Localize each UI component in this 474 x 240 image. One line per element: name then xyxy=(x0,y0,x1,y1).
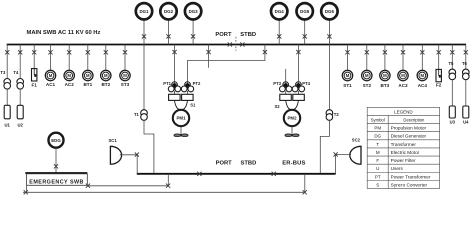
wire PT2 cross feed from STBD xyxy=(188,45,265,82)
svg-text:PT4: PT4 xyxy=(302,81,310,86)
wire SC1 to ER-bus xyxy=(120,155,137,174)
circuit breaker link B emergency end xyxy=(24,190,28,194)
svg-text:PT1: PT1 xyxy=(163,81,171,86)
diesel generator DG5 xyxy=(297,3,313,19)
wire ST1 drop xyxy=(347,45,349,71)
wire F2 drop xyxy=(438,45,440,70)
svg-text:PM1: PM1 xyxy=(176,116,186,121)
electric motor ST2 xyxy=(362,70,372,80)
svg-text:PORT: PORT xyxy=(216,160,233,166)
circuit breaker T5 feeder xyxy=(450,50,454,54)
circuit breaker F2 feeder xyxy=(437,50,441,54)
circuit breaker T4 feeder xyxy=(18,50,22,54)
circuit breaker DG3 xyxy=(191,34,195,38)
circuit breaker DG4 xyxy=(277,34,281,38)
svg-text:Diesel Generator: Diesel Generator xyxy=(391,134,427,139)
wire PT3 to S2a xyxy=(285,91,287,94)
electric motor ST3 xyxy=(120,70,130,80)
svg-text:PT3: PT3 xyxy=(273,81,281,86)
diesel generator DG6 xyxy=(321,3,337,19)
circuit breaker AC1 feeder xyxy=(48,50,52,54)
wire T4 drop xyxy=(19,45,21,79)
svg-text:AC3: AC3 xyxy=(398,83,408,88)
wire S2 to PM2 xyxy=(286,100,299,109)
circuit breaker ER bus tie stbd xyxy=(272,172,276,176)
wire emergency swb left drop xyxy=(26,185,28,192)
wire T1 upper xyxy=(143,45,145,111)
transformer T6 xyxy=(463,69,470,80)
legend table xyxy=(367,107,439,188)
svg-text:Description: Description xyxy=(403,118,425,123)
svg-text:DG: DG xyxy=(374,134,381,139)
transformer T3 xyxy=(4,79,11,90)
transformer T2 xyxy=(326,110,333,121)
circuit breaker ST3 feeder xyxy=(123,50,127,54)
svg-text:DG5: DG5 xyxy=(300,9,310,14)
wire PT1 to S1a xyxy=(174,91,176,94)
power transformer PT1 xyxy=(168,82,180,92)
svg-text:Transformer: Transformer xyxy=(391,142,417,147)
svg-text:Syncro Converter: Syncro Converter xyxy=(391,182,428,187)
wire AC2 drop xyxy=(68,45,70,71)
node port/stbd divider (dashed) xyxy=(235,37,237,51)
diesel generator DG1 xyxy=(136,3,152,19)
transformer T1 xyxy=(141,110,148,121)
circuit breaker AC4 feeder xyxy=(420,50,424,54)
svg-text:AC4: AC4 xyxy=(418,83,428,88)
circuit breaker BT3 feeder xyxy=(383,50,387,54)
emergency switchboard box xyxy=(27,174,88,186)
svg-text:SC1: SC1 xyxy=(109,138,118,143)
circuit breaker T6 feeder xyxy=(464,50,468,54)
circuit breaker DG5 xyxy=(303,34,307,38)
circuit breaker PT2 feeder xyxy=(263,50,267,54)
svg-text:Power Transformer: Power Transformer xyxy=(391,174,431,179)
power filter F1 xyxy=(32,69,37,81)
svg-text:S2: S2 xyxy=(275,104,281,109)
svg-text:BT2: BT2 xyxy=(101,82,110,87)
svg-text:F2: F2 xyxy=(436,82,442,87)
diesel generator DG4 xyxy=(271,3,287,19)
svg-text:ST2: ST2 xyxy=(363,83,372,88)
syncro converter S1 (box b) xyxy=(182,94,194,100)
syncro converter S1 (box a) xyxy=(169,94,181,100)
wire F1 drop xyxy=(33,45,35,69)
propeller 1 xyxy=(174,134,188,137)
svg-text:T6: T6 xyxy=(462,61,468,66)
svg-text:T3: T3 xyxy=(0,70,6,75)
propeller 2 xyxy=(285,134,299,137)
svg-text:T4: T4 xyxy=(13,70,19,75)
wire ER-bus drop to emergency link A xyxy=(167,174,169,186)
svg-text:BT1: BT1 xyxy=(83,82,92,87)
electric motor AC2 xyxy=(64,70,74,80)
circuit breaker ST1 feeder xyxy=(345,50,349,54)
diesel generator DG2 xyxy=(160,3,176,19)
syncro converter S2 (box a) xyxy=(280,94,292,100)
electric motor AC3 xyxy=(398,70,408,80)
svg-text:Users: Users xyxy=(391,166,404,171)
circuit breaker ST2 feeder xyxy=(365,50,369,54)
wire T3 drop xyxy=(6,45,8,79)
emergency generator EDG xyxy=(49,133,64,148)
circuit breaker spare feeder port xyxy=(207,50,211,54)
wire AC4 drop xyxy=(421,45,423,71)
wire T1 to ER-bus (jog) xyxy=(144,120,154,174)
svg-text:T5: T5 xyxy=(449,61,455,66)
user load U2 xyxy=(17,105,23,119)
propulsion motor PM1 xyxy=(173,110,189,126)
diesel generator DG3 xyxy=(185,3,201,19)
svg-text:DG1: DG1 xyxy=(139,9,149,14)
electric motor AC4 xyxy=(417,70,427,80)
power transformer PT2 xyxy=(181,82,193,92)
svg-text:STBD: STBD xyxy=(240,32,256,38)
circuit breaker PT1 feeder xyxy=(172,50,176,54)
circuit breaker BT1 feeder xyxy=(86,50,90,54)
wire PT1 drop xyxy=(174,45,176,82)
svg-text:Power Filter: Power Filter xyxy=(391,158,416,163)
wire PT2 to S1b xyxy=(187,91,189,94)
svg-text:T: T xyxy=(376,142,379,147)
wire AC1 drop xyxy=(50,45,52,71)
svg-text:F1: F1 xyxy=(32,82,38,87)
wire ST2 drop xyxy=(366,45,368,71)
syncro clutch SC1 xyxy=(110,146,121,165)
wire BT3 drop xyxy=(384,45,386,71)
circuit breaker T3 feeder xyxy=(5,50,9,54)
wire ER-bus drop to emergency link B xyxy=(304,174,306,192)
svg-text:U4: U4 xyxy=(463,119,469,124)
circuit breaker DG2 xyxy=(166,34,170,38)
wire T4 to U2 xyxy=(19,89,21,105)
wire DG1 to bus xyxy=(143,20,145,45)
electric motor ST1 xyxy=(342,70,352,80)
svg-text:M: M xyxy=(376,150,380,155)
syncro clutch SC2 xyxy=(350,146,361,165)
circuit breaker SC2 breaker xyxy=(334,152,338,156)
wire T5 to U3 xyxy=(451,80,453,106)
svg-text:LEGEND: LEGEND xyxy=(394,110,413,115)
bus ER-bus xyxy=(137,173,336,175)
svg-text:DG6: DG6 xyxy=(325,9,335,14)
wire S1 to PM1 xyxy=(175,100,188,109)
wire PT3 stub xyxy=(285,69,287,82)
wire T6 drop xyxy=(465,45,467,70)
svg-text:U: U xyxy=(376,166,379,171)
svg-text:EDG: EDG xyxy=(51,138,61,143)
wire DG3 to bus xyxy=(192,20,194,45)
wire AC3 drop xyxy=(402,45,404,71)
circuit breaker link A ER end xyxy=(166,184,170,188)
user load U1 xyxy=(4,105,10,119)
wire spare stub port xyxy=(208,45,210,68)
wire T5 drop xyxy=(451,45,453,70)
svg-text:T1: T1 xyxy=(134,112,140,117)
user load U4 xyxy=(463,106,469,118)
svg-text:STBD: STBD xyxy=(241,160,257,166)
wire T3 to U1 xyxy=(6,89,8,105)
svg-text:S: S xyxy=(376,182,379,187)
svg-text:AC2: AC2 xyxy=(65,82,75,87)
svg-text:DG2: DG2 xyxy=(164,9,174,14)
svg-text:BT3: BT3 xyxy=(381,83,390,88)
circuit breaker BT2 feeder xyxy=(104,50,108,54)
svg-text:U3: U3 xyxy=(450,119,456,124)
power transformer PT3 xyxy=(280,82,292,92)
circuit breaker F1 feeder xyxy=(32,50,36,54)
circuit breaker AC3 feeder xyxy=(401,50,405,54)
svg-text:PM2: PM2 xyxy=(287,116,297,121)
wire T2 upper xyxy=(328,45,330,111)
transformer T4 xyxy=(17,79,24,90)
svg-text:ER-BUS: ER-BUS xyxy=(282,160,305,166)
svg-text:PM: PM xyxy=(374,126,381,131)
circuit breaker EDG breaker xyxy=(54,164,58,168)
svg-text:U2: U2 xyxy=(18,122,24,127)
wire DG2 to bus xyxy=(168,20,170,45)
wire BT1 drop xyxy=(87,45,89,71)
circuit breaker ER bus tie port xyxy=(197,172,201,176)
bus main swb xyxy=(7,44,466,46)
svg-text:U1: U1 xyxy=(5,122,11,127)
wire PT4 to S2b xyxy=(297,91,299,94)
svg-text:PT: PT xyxy=(375,174,381,179)
svg-text:ST1: ST1 xyxy=(343,83,352,88)
power filter F2 xyxy=(436,69,441,81)
wire PM2 shaft xyxy=(291,127,293,136)
propulsion motor PM2 xyxy=(284,110,300,126)
circuit breaker bus tie port xyxy=(228,42,232,46)
circuit breaker link A emergency end xyxy=(86,184,90,188)
svg-text:ST3: ST3 xyxy=(121,82,130,87)
wire DG4 to bus xyxy=(278,20,280,45)
wire DG6 to bus xyxy=(328,20,330,45)
syncro converter S2 (box b) xyxy=(293,94,305,100)
svg-text:PT2: PT2 xyxy=(193,81,201,86)
electric motor BT1 xyxy=(83,70,93,80)
power transformer PT4 xyxy=(292,82,304,92)
wire DG5 to bus xyxy=(304,20,306,45)
wire PM1 shaft xyxy=(180,127,182,136)
bus emergency swb xyxy=(25,172,87,174)
svg-text:Propulsion Motor: Propulsion Motor xyxy=(391,126,427,131)
svg-text:EMERGENCY SWB: EMERGENCY SWB xyxy=(29,179,84,185)
circuit breaker link B ER end xyxy=(303,190,307,194)
electric motor AC1 xyxy=(45,70,55,80)
svg-text:PORT: PORT xyxy=(215,32,232,38)
circuit breaker AC2 feeder xyxy=(67,50,71,54)
circuit breaker PT4 feeder xyxy=(296,50,300,54)
svg-text:T2: T2 xyxy=(334,112,340,117)
wire BT2 drop xyxy=(105,45,107,71)
svg-text:DG4: DG4 xyxy=(275,9,285,14)
svg-text:F: F xyxy=(376,158,379,163)
svg-text:MAIN SWB AC 11 KV 60 Hz: MAIN SWB AC 11 KV 60 Hz xyxy=(27,30,101,36)
electric motor BT3 xyxy=(380,70,390,80)
svg-text:DG3: DG3 xyxy=(189,9,199,14)
wire PT4 drop xyxy=(297,45,299,82)
wire emergency link A xyxy=(88,185,169,187)
user load U3 xyxy=(449,106,455,118)
svg-text:AC1: AC1 xyxy=(46,82,56,87)
circuit breaker DG1 xyxy=(142,34,146,38)
circuit breaker bus tie stbd xyxy=(240,42,244,46)
svg-text:S1: S1 xyxy=(190,103,196,108)
wire SC2 to ER-bus xyxy=(336,154,351,173)
electric motor BT2 xyxy=(101,70,111,80)
wire EDG to emergency bus xyxy=(55,149,57,173)
wire T6 to U4 xyxy=(465,80,467,106)
svg-text:Electric Motor: Electric Motor xyxy=(391,150,420,155)
svg-text:SC2: SC2 xyxy=(352,137,361,142)
transformer T5 xyxy=(449,69,456,80)
wire ST3 drop xyxy=(124,45,126,71)
wire emergency link B xyxy=(23,191,305,193)
wire T2 to ER-bus (jog) xyxy=(320,120,329,174)
circuit breaker SC1 breaker xyxy=(135,153,139,157)
circuit breaker DG6 xyxy=(327,34,331,38)
svg-text:Symbol: Symbol xyxy=(371,118,385,123)
